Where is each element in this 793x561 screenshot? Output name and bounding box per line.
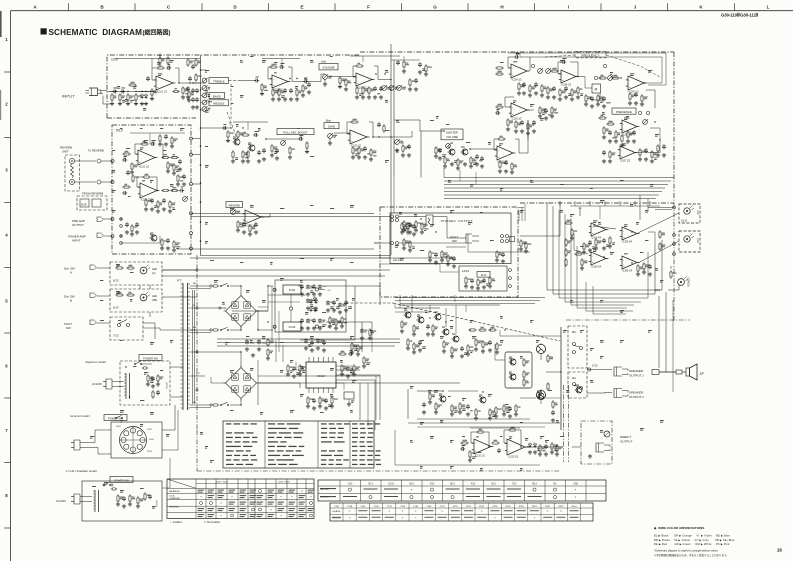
- svg-text:G30-110Ⅱ: G30-110Ⅱ: [332, 511, 340, 513]
- svg-text:BASS: BASS: [213, 94, 221, 98]
- master marks: [446, 123, 449, 126]
- op-amp IC108a comparator: [591, 223, 606, 236]
- pa junctions: [429, 317, 430, 318]
- reverb marks: [126, 147, 130, 150]
- ground: [539, 114, 541, 116]
- resistor R22: [402, 144, 404, 146]
- mute junctions: [442, 390, 443, 391]
- second integrator row op-amp IC106: [511, 103, 527, 117]
- led comps grid: [595, 238, 597, 240]
- us components: [117, 494, 119, 496]
- ground: [329, 141, 331, 143]
- PULL MID BOOST label box: [277, 129, 314, 135]
- svg-text:P.T.: P.T.: [177, 279, 182, 283]
- op-amp IC101b recovery: [272, 75, 288, 88]
- svg-text:7/13: 7/13: [113, 334, 119, 338]
- svg-text:J: J: [634, 4, 637, 9]
- svg-text:6/13: 6/13: [113, 306, 119, 310]
- us switch: [103, 484, 105, 486]
- reverb board box 5/19: [112, 125, 191, 254]
- wire right top: [391, 59, 420, 61]
- muting transistor Q110: [440, 396, 446, 402]
- stage2 caps: [284, 88, 286, 90]
- bridge2 output wires: [257, 360, 259, 383]
- capacitor table frame: [330, 503, 593, 521]
- dash-dot verticals near direct out: [563, 385, 565, 462]
- ground G5: [141, 102, 143, 104]
- board boundary dash-dot above tables: [196, 430, 198, 471]
- freq loop wire2: [545, 53, 666, 85]
- ground: [351, 350, 353, 352]
- phones divider resistors: [403, 238, 405, 240]
- wire: [576, 76, 585, 78]
- speaker jack switch dashed box 2: [568, 372, 587, 398]
- tone network capacitor C5: [192, 64, 194, 66]
- regulator mid junction: [289, 307, 292, 310]
- wires down from bridge2: [240, 399, 242, 405]
- resistor R29: [425, 64, 427, 66]
- supply stub: [579, 208, 581, 216]
- ground: [131, 170, 133, 172]
- resistor R14: [339, 76, 341, 78]
- svg-text:8Ω: 8Ω: [572, 330, 576, 334]
- foot sw wire down: [468, 243, 530, 252]
- pa wires to output: [546, 371, 561, 373]
- svg-text:M: M: [595, 88, 598, 92]
- parts list table frame: [223, 421, 374, 468]
- coupling cap C10: [303, 81, 305, 83]
- svg-text:AC120V: AC120V: [56, 499, 66, 503]
- row2 network: [495, 106, 497, 108]
- semi table rows: [318, 485, 606, 487]
- reverb mid comps: [177, 174, 179, 176]
- svg-text:14/19: 14/19: [462, 269, 469, 273]
- svg-text:-: -: [512, 66, 513, 70]
- mute comps col1: [429, 392, 431, 394]
- svg-text:POWER SW: POWER SW: [143, 356, 158, 360]
- supply rail wires: [258, 286, 273, 311]
- svg-text:7/13: 7/13: [512, 484, 517, 486]
- phones left connector circles: [391, 215, 394, 218]
- bias network vertical: [475, 338, 477, 340]
- output transistor Q108: [536, 344, 545, 353]
- fsw marks: [116, 263, 120, 266]
- svg-text:DIRECT: DIRECT: [620, 435, 632, 439]
- wires bus to LED boxes: [648, 207, 674, 209]
- POWER SW label box us: [110, 477, 133, 483]
- presence comps: [615, 130, 617, 132]
- svg-text:×: Not installed: ×: Not installed: [204, 521, 221, 524]
- preamp enclosure bottom-left edge: [107, 117, 196, 119]
- resistor R13: [296, 88, 298, 90]
- svg-text:GENERAL: GENERAL: [169, 506, 180, 509]
- border frame top rule: [11, 10, 793, 12]
- phones right grounds: [520, 247, 522, 249]
- jp transformer primary: [125, 373, 127, 399]
- ground G6: [182, 95, 184, 97]
- svg-text:240V: 240V: [116, 426, 121, 428]
- freq mini circles: [531, 64, 534, 67]
- grounds: [396, 148, 398, 150]
- LED footswitch box B: [110, 289, 162, 312]
- ground G2: [119, 102, 121, 104]
- us extra contacts: [103, 484, 105, 486]
- svg-text:BL ▶ Black OR ▶ Orange: BL ▶ Black OR ▶ Orange VI ▶ Violet BE ▶ …: [654, 534, 730, 538]
- supply stub +V: [159, 56, 161, 59]
- reverb mix resistors: [161, 190, 163, 192]
- phones box drop wires: [399, 295, 401, 308]
- return network: [122, 186, 124, 188]
- supply verticals left: [271, 286, 273, 340]
- ground G10: [324, 82, 326, 84]
- svg-text:LED: LED: [152, 294, 157, 298]
- grounds freq: [629, 101, 631, 103]
- preamp enclosure right edge: [673, 52, 675, 203]
- mute wires: [448, 390, 478, 392]
- voltage selector ring: [120, 427, 147, 454]
- fuse table cells: [198, 490, 205, 491]
- driver resistors: [523, 358, 525, 360]
- bus junction: [200, 127, 202, 129]
- Bch out network: [352, 146, 354, 148]
- LED B resistors: [115, 294, 117, 296]
- -15V terminal: [315, 325, 318, 328]
- phones junctions: [435, 231, 436, 232]
- input wiring: [103, 96, 110, 105]
- japanese power box: [120, 361, 170, 405]
- svg-text:LED: LED: [696, 238, 699, 243]
- svg-text:-: -: [139, 153, 140, 157]
- comparator2 comps: [609, 236, 611, 238]
- grounds: [237, 228, 239, 230]
- FET Q2: [249, 145, 255, 151]
- pa input comps: [401, 320, 403, 322]
- feedback R15: [355, 65, 357, 67]
- supply bus to power amp: [336, 375, 380, 420]
- ground: [439, 156, 441, 158]
- svg-text:(A): (A): [152, 271, 156, 275]
- freq feedback cap C20: [514, 56, 516, 58]
- svg-text:IC110 2/2: IC110 2/2: [508, 457, 519, 459]
- column tick: [401, 3, 403, 11]
- resistor R4: [128, 84, 130, 86]
- freq out components: [629, 92, 631, 94]
- footswitch jack J4: [90, 265, 95, 270]
- regulator diodes: [313, 298, 316, 301]
- svg-text:JAPANESE: JAPANESE: [169, 490, 180, 493]
- bridge rectifier BR2: [226, 368, 257, 399]
- semiconductor table frame: [318, 480, 606, 501]
- wire runs mute: [417, 390, 443, 392]
- svg-text:2200: 2200: [250, 343, 254, 345]
- svg-text:4/13: 4/13: [471, 484, 476, 486]
- driver transistor Q106: [510, 359, 516, 365]
- ground G9: [296, 97, 298, 99]
- svg-text:INPUT: INPUT: [72, 239, 81, 243]
- stage3 network resistors: [356, 86, 358, 88]
- presence marks: [602, 111, 605, 114]
- op-amp IC107a presence: [622, 120, 637, 133]
- power amp transistor Q103: [435, 314, 441, 320]
- wire: [594, 226, 616, 229]
- pa grounds3: [475, 347, 477, 349]
- wire freq down to presence: [646, 90, 655, 108]
- svg-text:RE ▶ Red GR ▶ Green: RE ▶ Red GR ▶ Green WH ▶ White PK ▶ Pink: [654, 542, 730, 546]
- svg-text:IC106 1/2: IC106 1/2: [512, 119, 523, 121]
- wire tone to recovery stage: [229, 80, 241, 82]
- parts table verticals: [264, 421, 266, 468]
- bus wires reverb to phones box: [191, 213, 374, 215]
- bleeder resistors: [267, 338, 269, 340]
- master comps: [439, 148, 441, 150]
- stage1 value marks: [117, 85, 120, 88]
- svg-text:SCHEMATIC DIAGRAM: SCHEMATIC DIAGRAM: [49, 28, 143, 37]
- supply junction dots: [257, 329, 258, 330]
- distortion bus dashed diagonal: [227, 112, 237, 139]
- ground G3: [127, 102, 129, 104]
- bus annotations: [205, 69, 209, 72]
- protection IC110 block: [306, 362, 336, 388]
- jp marks: [133, 365, 136, 368]
- Bch grounds: [232, 159, 234, 161]
- supply vertical bundle: [359, 383, 361, 420]
- BASS label box: [209, 93, 225, 99]
- preamp enclosure bottom-right edge: [520, 202, 674, 204]
- foot sw wires: [97, 322, 111, 324]
- dashed pointer lines frequency: [545, 55, 575, 57]
- diode D1: [140, 95, 143, 98]
- supply grid wires: [268, 294, 306, 296]
- svg-text:MIDDLE: MIDDLE: [213, 102, 224, 106]
- connector dots column: [120, 218, 123, 221]
- phones jack symbol: [426, 215, 433, 226]
- bus junction: [200, 69, 202, 71]
- phones right edge wires: [518, 207, 524, 209]
- presence2 comps: [609, 150, 611, 152]
- tap double wires: [190, 288, 211, 290]
- direct out level resistors: [551, 442, 553, 444]
- phones inner wires: [380, 257, 455, 259]
- mid boost pot VR7: [281, 141, 286, 146]
- buffer transistor Q5: [151, 235, 157, 241]
- pa wires2: [445, 308, 447, 327]
- power amp transistor Q102: [418, 317, 424, 323]
- svg-text:IC109 3/4: IC109 3/4: [591, 267, 602, 269]
- ground G4: [135, 102, 137, 104]
- ground: [247, 159, 249, 161]
- svg-text:-: -: [623, 122, 624, 126]
- reverb junctions: [162, 157, 163, 158]
- row tick: [4, 71, 10, 73]
- svg-text:6/13: 6/13: [113, 279, 119, 283]
- svg-text:220V: 220V: [147, 451, 152, 453]
- ground: [348, 402, 350, 404]
- column tick: [667, 3, 669, 11]
- footswitch jack J5: [90, 293, 95, 298]
- presence extra comps: [627, 130, 629, 132]
- cap table rows: [330, 507, 593, 509]
- jp fuse: [142, 367, 143, 369]
- svg-text:-: -: [562, 72, 563, 76]
- pa marks: [404, 307, 407, 310]
- wire stage2 junctions: [289, 78, 290, 79]
- ac plug jp: [106, 379, 112, 389]
- supply resistors extra: [351, 342, 353, 344]
- preamp board enclosure dashed box 1/19: [107, 55, 360, 118]
- jack wiring into board: [104, 218, 113, 220]
- mixer transistor Q3: [449, 149, 455, 155]
- jp junctions: [125, 366, 126, 367]
- svg-text:L: L: [767, 4, 770, 9]
- dashed link to power amp: [346, 302, 393, 304]
- wire preamp to master: [394, 120, 444, 131]
- svg-text:G30-112Ⅱ: G30-112Ⅱ: [332, 517, 340, 519]
- svg-text:A: A: [70, 271, 72, 275]
- svg-text:F: F: [367, 4, 370, 9]
- nested feedback loop wires bottom right: [547, 202, 662, 290]
- svg-text:B: B: [70, 299, 72, 303]
- Bch resistors R17 R18: [232, 150, 234, 152]
- grounds: [352, 155, 354, 157]
- svg-text:OUTPUT: OUTPUT: [620, 440, 634, 444]
- svg-text:-: -: [246, 212, 247, 216]
- bus junction: [200, 164, 202, 166]
- switch contacts in box2: [573, 383, 576, 386]
- reverb tank connector top: [69, 158, 74, 163]
- gen ring spokes: [132, 427, 134, 454]
- svg-text:IC104 2/2: IC104 2/2: [561, 85, 572, 87]
- tone stack wiring: [193, 82, 206, 84]
- power led wires: [670, 266, 672, 269]
- ground: [179, 167, 181, 169]
- us grounds: [117, 502, 119, 504]
- freq junctions: [577, 76, 578, 77]
- svg-text:Bch: Bch: [326, 118, 332, 122]
- treble pot VR1: [202, 78, 207, 83]
- supply res R115: [369, 328, 371, 330]
- relay transistor Q113: [576, 387, 582, 393]
- direct comps between: [491, 442, 493, 444]
- op-amp IC101a first stage: [156, 76, 173, 90]
- POWER LED circle: [678, 279, 685, 286]
- us plug wires: [80, 496, 92, 498]
- reverb return network caps: [127, 170, 129, 172]
- foot sw contact: [118, 324, 121, 327]
- row2 grounds: [301, 326, 303, 328]
- integrator cap C21: [561, 61, 563, 63]
- svg-text:-: -: [621, 148, 622, 152]
- op-amp IC105 output: [628, 76, 644, 90]
- stage3 grounds: [356, 95, 358, 97]
- svg-text:○: Installed: ○: Installed: [170, 521, 182, 524]
- direct level pot: [604, 431, 610, 437]
- wire to op-amp: [138, 91, 156, 93]
- REVERB label box: [226, 202, 243, 208]
- signal wire to Bch gain: [266, 138, 300, 140]
- ground: [496, 258, 498, 260]
- phones mid grounds: [403, 228, 405, 230]
- ground: [345, 87, 347, 89]
- diode D2: [144, 95, 147, 98]
- ground: [361, 336, 363, 338]
- resistor R3: [127, 93, 129, 95]
- op-amp IC102a: [356, 73, 372, 86]
- reverb out op-amp IC152: [245, 210, 261, 224]
- supply rail stage2: [262, 58, 300, 60]
- bus junction: [200, 221, 202, 223]
- svg-text:Japanese model: Japanese model: [85, 360, 106, 364]
- board box inner rects: [80, 199, 89, 207]
- svg-text:LED: LED: [696, 210, 699, 215]
- phones M box: [510, 237, 515, 242]
- resistor network to third amp: [598, 77, 600, 79]
- wire: [97, 267, 111, 269]
- wire Bch out: [373, 136, 391, 138]
- mute comps col2: [451, 404, 453, 406]
- wires to speaker jacks: [587, 369, 612, 371]
- capacitor C22: [189, 76, 191, 78]
- wire to stage3: [329, 76, 356, 78]
- capacitor C19: [147, 76, 149, 78]
- svg-text:(100V): (100V): [165, 382, 167, 389]
- phones marks: [399, 211, 402, 214]
- direct out op-amp IC110a: [474, 439, 491, 454]
- Bch right components: [378, 122, 380, 124]
- supply marks: [214, 279, 218, 282]
- column tick: [467, 3, 469, 11]
- svg-text:INPUT: INPUT: [62, 94, 75, 99]
- Bch rail: [233, 121, 268, 123]
- mute extra grounds: [503, 412, 505, 414]
- row tick: [4, 397, 10, 399]
- svg-text:110V: 110V: [147, 429, 152, 431]
- ground G11: [339, 85, 341, 87]
- power led resistor: [670, 270, 672, 272]
- svg-text:To REVERB: To REVERB: [88, 149, 104, 153]
- insert network caps: [126, 222, 128, 224]
- border frame left rule: [10, 11, 12, 561]
- Bch resistor extra: [247, 150, 249, 152]
- grounds: [518, 91, 520, 93]
- insert jacks contacts: [111, 218, 114, 221]
- svg-text:16: 16: [777, 548, 783, 553]
- led grid grounds: [595, 246, 597, 248]
- svg-text:PULL MID. BOOST: PULL MID. BOOST: [283, 131, 307, 135]
- presence feedback loop: [635, 128, 660, 153]
- mute long wires: [408, 422, 560, 424]
- svg-text:IC109 2/4: IC109 2/4: [622, 242, 633, 244]
- regulator cap 47u: [307, 299, 309, 301]
- svg-text:2/13: 2/13: [491, 484, 496, 486]
- Bch junctions: [230, 127, 231, 128]
- semi table row label cells: [320, 488, 336, 489]
- reverb depth pot VR13: [183, 197, 188, 202]
- phones extra comps: [447, 254, 449, 256]
- capacitor C8: [254, 80, 256, 82]
- svg-text:5/19: 5/19: [116, 129, 123, 133]
- phones comps mid: [403, 220, 405, 222]
- row2 components right: [515, 120, 517, 122]
- svg-text:LED: LED: [152, 267, 157, 271]
- wires to LEDs: [638, 213, 679, 233]
- svg-text:BR: BR: [193, 283, 196, 285]
- resistor R1: [111, 93, 113, 95]
- muting transistor Q111: [480, 397, 486, 403]
- svg-text:-: -: [592, 254, 593, 258]
- fuse F1: [212, 285, 213, 287]
- wire box to bus: [193, 138, 201, 140]
- input resistors freq: [495, 67, 497, 69]
